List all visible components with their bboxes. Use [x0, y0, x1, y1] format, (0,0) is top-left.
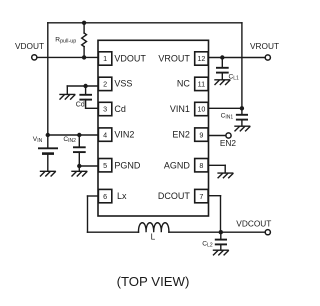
svg-text:AGND: AGND: [164, 160, 191, 170]
svg-text:(TOP VIEW): (TOP VIEW): [117, 274, 190, 289]
svg-text:Lx: Lx: [117, 191, 127, 201]
svg-text:CL2: CL2: [202, 241, 213, 249]
svg-text:PGND: PGND: [114, 160, 141, 170]
svg-text:5: 5: [103, 161, 107, 170]
svg-text:Cd: Cd: [114, 104, 126, 114]
svg-text:8: 8: [199, 161, 203, 170]
svg-text:2: 2: [103, 80, 107, 89]
svg-text:Rpull-up: Rpull-up: [55, 37, 76, 45]
svg-text:11: 11: [198, 80, 205, 89]
svg-text:CIN1: CIN1: [221, 113, 234, 121]
svg-text:1: 1: [103, 54, 107, 63]
svg-text:CIN2: CIN2: [63, 136, 76, 144]
svg-text:DCOUT: DCOUT: [158, 191, 190, 201]
svg-text:VROUT: VROUT: [158, 54, 190, 64]
svg-text:10: 10: [197, 105, 205, 114]
svg-text:EN2: EN2: [220, 138, 237, 148]
svg-text:7: 7: [199, 192, 203, 201]
svg-text:Cd: Cd: [76, 102, 85, 109]
svg-text:VIN: VIN: [33, 136, 43, 144]
svg-text:VSS: VSS: [114, 79, 132, 89]
svg-text:6: 6: [103, 192, 107, 201]
svg-text:12: 12: [197, 54, 205, 63]
svg-text:9: 9: [199, 130, 203, 139]
svg-text:CL1: CL1: [229, 73, 240, 81]
svg-text:VDCOUT: VDCOUT: [236, 218, 271, 228]
svg-text:NC: NC: [177, 79, 190, 89]
svg-text:VDOUT: VDOUT: [114, 54, 146, 64]
svg-text:VIN2: VIN2: [114, 130, 134, 140]
svg-text:L: L: [151, 231, 156, 241]
svg-text:VDOUT: VDOUT: [15, 41, 44, 51]
svg-text:VIN1: VIN1: [170, 104, 190, 114]
svg-text:EN2: EN2: [172, 130, 190, 140]
svg-text:4: 4: [103, 130, 107, 139]
svg-text:VROUT: VROUT: [250, 41, 279, 51]
svg-text:3: 3: [103, 105, 107, 114]
